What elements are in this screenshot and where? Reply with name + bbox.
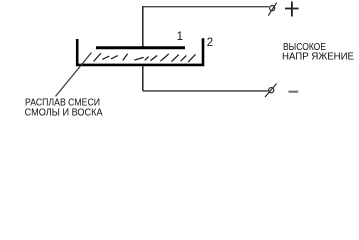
svg-text:2: 2	[207, 37, 213, 49]
vessel (electrode 2)	[77, 38, 203, 65]
wire: bottom horizontal run to − terminal	[143, 90, 268, 92]
svg-text:СМОЛЫ И ВОСКА: СМОЛЫ И ВОСКА	[25, 108, 103, 119]
wire: vertical from vessel bottom	[142, 66, 144, 91]
melt hatching	[94, 54, 195, 62]
minus sign	[288, 91, 298, 93]
leader line to melt label	[56, 53, 92, 97]
terminal (bottom, −) : circle with slash	[265, 84, 277, 98]
wire: top horizontal run to + terminal	[143, 6, 269, 8]
svg-text:1: 1	[177, 31, 183, 43]
wire: vertical drop from top run to electrode 1	[142, 6, 144, 47]
plus sign	[285, 2, 299, 17]
terminal (top, +) : circle with slash	[268, 3, 276, 16]
svg-text:НАПР ЯЖЕНИЕ: НАПР ЯЖЕНИЕ	[282, 52, 354, 63]
electrode 1 (upper plate)	[96, 46, 185, 49]
